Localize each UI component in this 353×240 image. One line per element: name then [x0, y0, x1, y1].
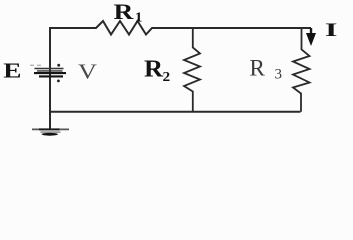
svg-text:V: V [78, 61, 97, 84]
svg-text:1: 1 [135, 10, 143, 25]
svg-text:I: I [325, 19, 338, 41]
svg-text:R: R [114, 0, 135, 24]
svg-text:2: 2 [163, 70, 171, 85]
svg-text:3: 3 [275, 67, 283, 83]
svg-text:R: R [144, 57, 164, 83]
svg-text:E: E [3, 59, 21, 82]
svg-text:R: R [250, 56, 266, 81]
